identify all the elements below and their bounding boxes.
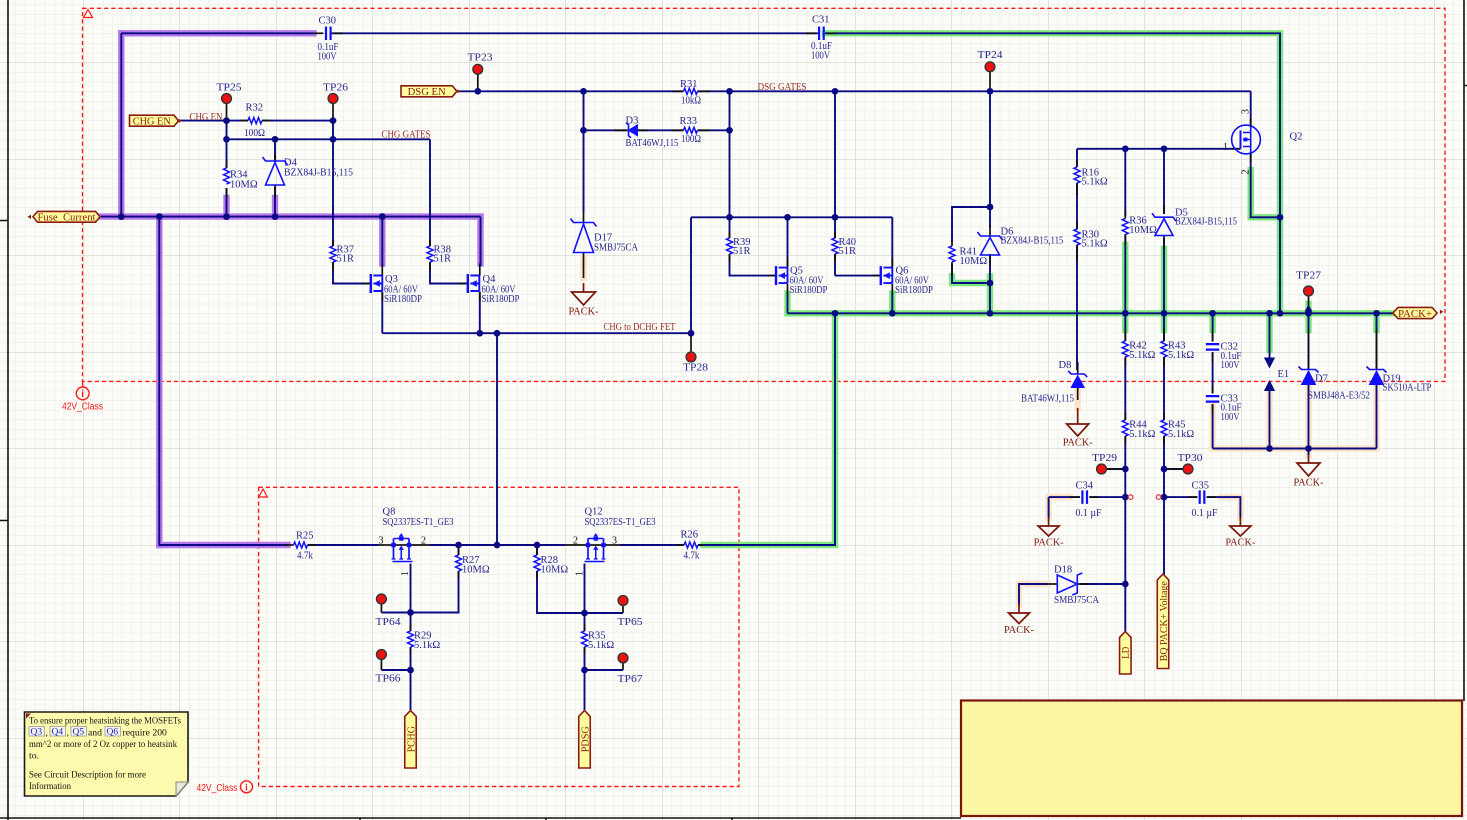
wire TP24 column x=990: [989, 91, 991, 207]
svg-text:CHG EN: CHG EN: [133, 117, 171, 128]
pin R39 bottom: [729, 254, 731, 262]
pin TP26 stub: [332, 104, 334, 121]
wire D5 bottom to bus: [1163, 238, 1165, 313]
wire C34 row: [1049, 496, 1080, 498]
junction CHG GATES D4: [272, 136, 279, 143]
pin R33 leads: [672, 129, 684, 131]
wire D18 right lead: [1080, 583, 1125, 585]
green highlight D7 top stub: [1305, 304, 1311, 330]
junction TP67: [581, 667, 588, 674]
test point TP23: [473, 64, 483, 74]
orange highlight E1 bottom drop: [1266, 391, 1272, 449]
pin D5 top: [1163, 205, 1165, 213]
junction CHG GATES x=226: [223, 136, 230, 143]
svg-text:To ensure proper heatsinking t: To ensure proper heatsinking the MOSFETs: [29, 716, 181, 727]
pin R43 top: [1163, 330, 1165, 341]
junction D18: [1122, 581, 1129, 588]
junction TP65: [581, 610, 588, 617]
test point TP66: [377, 650, 387, 660]
resistor R34: [224, 168, 230, 184]
wire C32 C33 column b: [1212, 352, 1214, 393]
wire C32 C33 column a: [1212, 313, 1214, 341]
svg-text:2: 2: [421, 536, 426, 547]
junction C34 right: [1122, 494, 1129, 501]
wire drain bus y=217 right side: [691, 216, 892, 218]
wire D4 column top: [274, 139, 276, 161]
pin Q2 pin2: [1250, 152, 1252, 162]
power PACK- (D8): [1067, 408, 1089, 436]
svg-text:Q6: Q6: [107, 728, 119, 738]
svg-text:SiR180DP: SiR180DP: [384, 294, 422, 305]
Q2 pin 3 number: [1240, 109, 1251, 114]
wire Fuse_Current bus y=216: [101, 216, 481, 218]
pin R28 bottom: [536, 571, 538, 578]
svg-text:CHG to DCHG FET: CHG to DCHG FET: [604, 322, 676, 333]
wire Q2 source elbow: [1251, 152, 1280, 217]
pin TP28 stub: [690, 333, 692, 352]
wire R28 elbow: [537, 571, 585, 613]
junction purple Q3: [379, 213, 386, 220]
svg-text:require 200: require 200: [123, 728, 168, 739]
svg-text:TP23: TP23: [468, 53, 493, 64]
green highlight Q2 source elbow: [1251, 170, 1280, 217]
pin D5 bottom: [1163, 236, 1165, 250]
svg-text:Q4: Q4: [52, 728, 64, 738]
port LD: [1120, 632, 1132, 675]
resistor R41: [949, 246, 955, 262]
sheet border left edge: [0, 0, 8, 820]
resistor R35: [582, 631, 588, 647]
junction purple D4: [272, 213, 279, 220]
svg-text:DSG EN: DSG EN: [408, 87, 446, 98]
wire TP64 row: [381, 612, 410, 614]
wire Q3 source drop: [381, 292, 383, 333]
resistor R28: [534, 555, 540, 571]
pin D8 bottom: [1077, 388, 1079, 401]
pin R38 leads: [429, 240, 431, 246]
pin R26 right: [698, 544, 703, 546]
pin Q2 pin3: [1250, 118, 1252, 127]
wire Q12 pin1 drop: [584, 564, 586, 614]
pin D17 bottom: [583, 253, 585, 278]
svg-text:5.1kΩ: 5.1kΩ: [1082, 177, 1108, 188]
pin Q3 drain: [381, 264, 383, 276]
svg-text:BQ PACK+ Voltage: BQ PACK+ Voltage: [1159, 581, 1170, 662]
wire R35 bottom: [584, 647, 586, 670]
svg-text:to.: to.: [29, 751, 39, 762]
svg-text:5.1kΩ: 5.1kΩ: [1168, 429, 1194, 440]
resistor R40: [832, 238, 838, 254]
wire PACK+ bus y=313: [788, 312, 1394, 314]
svg-text:mm^2 or more of 2 Oz copper to: mm^2 or more of 2 Oz copper to heatsink: [29, 739, 177, 750]
pin R35 bottom: [584, 647, 586, 654]
note text line 2 Q refs: [29, 727, 45, 737]
wire R34 column bottom: [226, 188, 228, 217]
junction green bus D7: [1305, 310, 1312, 317]
wire D7 column: [1308, 313, 1310, 369]
wire R41 bottom elbow: [952, 264, 990, 283]
pin R32 right: [262, 120, 270, 122]
pin R34 leads: [226, 160, 228, 168]
junction Q8 row R27: [455, 542, 462, 549]
pin D6 bottom: [989, 254, 991, 266]
junction green bus Q2: [1277, 310, 1284, 317]
junction purple x=159: [156, 213, 163, 220]
wire Fuse_Current top run y=33: [121, 32, 313, 34]
svg-text:Q2: Q2: [1290, 132, 1303, 143]
wire Q4 source drop: [479, 292, 481, 333]
Q12 pin 1 number: [575, 571, 586, 576]
transistor Q4: [467, 274, 469, 293]
wire R25 to Q8 gate: [315, 544, 379, 546]
svg-text:SiR180DP: SiR180DP: [482, 294, 520, 305]
title block box: [961, 701, 1462, 817]
test point TP65: [618, 596, 628, 606]
purple highlight Fuse_Current vertical x=121: [118, 33, 124, 216]
sheet border right edge: [1464, 0, 1467, 701]
svg-text:10kΩ: 10kΩ: [681, 95, 701, 106]
svg-text:42V_Class: 42V_Class: [62, 402, 103, 413]
svg-text:C35: C35: [1192, 480, 1210, 491]
port DSG EN: [401, 86, 457, 97]
junction green bus D6: [987, 310, 994, 317]
svg-text:TP65: TP65: [618, 617, 643, 628]
power PACK- (C34): [1038, 518, 1059, 537]
wire R36 column: [1124, 149, 1126, 216]
wire PCHG drop: [410, 670, 412, 711]
test point TP28: [686, 352, 696, 362]
pin R26 leads: [676, 544, 684, 546]
svg-text:4.7k: 4.7k: [684, 551, 701, 562]
pin R30 top: [1076, 222, 1078, 229]
svg-text:PCHG: PCHG: [406, 726, 417, 752]
svg-text:51R: 51R: [839, 246, 857, 257]
resistor R44: [1122, 420, 1128, 436]
wire R43 R45 column c: [1163, 436, 1165, 497]
pin Q5 source: [787, 284, 789, 294]
port PDSG: [579, 711, 591, 769]
svg-text:1: 1: [400, 571, 411, 576]
pin R42 bottom: [1124, 357, 1126, 366]
pin TP65 stub: [622, 606, 624, 614]
no-ERC marker C34: [1128, 495, 1133, 500]
test point TP30: [1183, 464, 1193, 474]
resistor R38: [427, 246, 433, 262]
wire C35 left lead: [1164, 496, 1197, 498]
wire TP29 row to C34: [1107, 468, 1126, 470]
svg-text:Q12: Q12: [585, 507, 603, 518]
svg-text:SiR180DP: SiR180DP: [895, 285, 933, 296]
junction drain bus Q5: [784, 214, 791, 221]
42V_Class blanket corner marker: [84, 10, 93, 18]
wire CHG GATES row y=139: [227, 138, 431, 140]
diode D8: [1071, 376, 1084, 388]
pin R16 bottom: [1076, 183, 1078, 195]
svg-text:PACK-: PACK-: [1225, 538, 1255, 549]
no-ERC marker C35: [1156, 495, 1161, 500]
resistor R29: [408, 631, 414, 647]
pin R29 leads: [410, 624, 412, 631]
pin R32 leads: [240, 120, 248, 122]
pin Q12 pin2: [565, 544, 587, 546]
orange highlight D17 bottom stub: [580, 258, 586, 278]
capacitor C32: [1206, 344, 1220, 350]
wire R40 column top: [834, 217, 836, 238]
resistor R39: [727, 238, 733, 254]
resistor R26: [684, 542, 698, 548]
42V_Class blanket (lower region) dashed boundary: [259, 487, 739, 786]
junction green bus Q6: [889, 310, 896, 317]
svg-text:D3: D3: [626, 116, 639, 127]
pin Q3 source: [381, 292, 383, 302]
junction y333 TP28: [688, 330, 695, 337]
wire DSG_EN row y=91 b: [698, 90, 1251, 92]
svg-text:i: i: [81, 389, 84, 400]
wire C32 C33 column c: [1212, 404, 1214, 448]
wire TP67 row: [585, 669, 624, 671]
orange highlight C35 PACK- elbow: [1222, 497, 1240, 517]
resistor R36: [1122, 219, 1128, 235]
zener diode D6: [978, 232, 1003, 240]
green highlight R42 top stub: [1122, 313, 1128, 330]
capacitor C31: [819, 27, 824, 41]
wire R31 R33 left column x=583: [583, 91, 585, 212]
wire R43 R45 column a: [1163, 313, 1165, 341]
zener diode D4: [263, 157, 288, 165]
port PACK+: [1393, 307, 1437, 318]
wire R25 to Q8 spacer: [308, 544, 316, 546]
wire TP26 jog down: [332, 121, 334, 140]
zener diode D17: [571, 219, 597, 227]
capacitor C33: [1206, 396, 1220, 402]
test point TP67: [618, 653, 628, 663]
pin R43 bottom: [1163, 357, 1165, 366]
wire vertical to R25 and row: [159, 217, 287, 545]
test point TP26: [328, 94, 338, 104]
pin R38 bottom: [429, 262, 431, 270]
TP27 entry arrow: [1305, 305, 1313, 312]
capacitor C34: [1082, 490, 1087, 504]
wire R27 elbow: [411, 571, 459, 613]
junction DSG row x=729: [726, 88, 733, 95]
purple highlight Fuse_Current net top run: [121, 30, 313, 36]
svg-text:51R: 51R: [337, 254, 355, 265]
wire D19 to PACK- bus: [1376, 384, 1378, 449]
green highlight D5 bottom stub: [1161, 249, 1167, 313]
svg-text:and: and: [88, 728, 102, 739]
junction TP30: [1161, 466, 1168, 473]
pin C33 bottom: [1212, 404, 1214, 414]
pin R40 bottom: [834, 254, 836, 262]
orange highlight PACK- bus y=448: [1213, 445, 1377, 451]
resistor R45: [1161, 420, 1167, 436]
green highlight PACK+ top run C31 to corner: [825, 33, 1280, 313]
resistor R32: [248, 118, 262, 124]
junction purple R34: [223, 213, 230, 220]
svg-text:3: 3: [379, 536, 384, 547]
pin D6 top: [989, 225, 991, 236]
wire R16 R30 D8 column c: [1076, 245, 1078, 370]
transistor Q8: [394, 539, 410, 560]
pin TP66 stub: [380, 660, 382, 671]
pin C30 right: [333, 32, 343, 34]
test point TP64: [377, 594, 387, 604]
test point TP27: [1304, 286, 1314, 296]
pin R34 bottom: [226, 188, 228, 198]
pin R29 bottom: [410, 647, 412, 654]
Q8 pin 1 number: [400, 571, 411, 576]
wire R16 R30 D8 column b: [1076, 183, 1078, 229]
svg-text:C30: C30: [319, 15, 337, 26]
wire R39 elbow to Q5 gate: [730, 254, 777, 276]
resistor R33: [684, 127, 698, 133]
wire D5 column: [1163, 149, 1165, 214]
junction y333 Q4: [476, 330, 483, 337]
resistor R37: [330, 246, 336, 262]
junction Q2 source corner: [1277, 214, 1284, 221]
pin C30 left: [314, 32, 324, 34]
wire R37 elbow to Q3 gate: [333, 262, 371, 284]
wire R27 column top: [458, 545, 460, 555]
pin Q12 pin3: [605, 544, 620, 546]
svg-text:Q5: Q5: [73, 728, 85, 738]
pin TP29 stub: [1107, 468, 1125, 470]
svg-text:100V: 100V: [1221, 360, 1240, 371]
pin Q8 gate: [379, 544, 393, 546]
svg-text:BAT46WJ,115: BAT46WJ,115: [1021, 394, 1074, 405]
svg-text:Information: Information: [29, 781, 71, 792]
transistor Q2: [1232, 125, 1261, 154]
pin R41 top: [951, 240, 953, 246]
pin R37 bottom: [332, 262, 334, 270]
wire TP28 column x=691: [690, 217, 692, 333]
note box: [25, 712, 189, 796]
pin D3 anode: [637, 129, 648, 131]
pin C32 bottom: [1212, 352, 1214, 362]
wire D6 column: [989, 207, 991, 228]
svg-text:Q3: Q3: [31, 728, 43, 738]
wire R42 R44 column a: [1124, 313, 1126, 341]
pin D17 top: [583, 212, 585, 222]
wire R35 column: [584, 613, 586, 631]
pin D4 bottom: [274, 185, 276, 198]
wire C34 right lead: [1090, 496, 1126, 498]
pin D7 top: [1308, 330, 1310, 369]
svg-text:SMBJ75CA: SMBJ75CA: [1054, 595, 1099, 606]
pin D3 cathode: [614, 129, 628, 131]
pin Q2 gate lead: [1232, 148, 1241, 150]
wire R43 R45 column b: [1163, 357, 1165, 420]
pin Q3 gate lead: [362, 283, 371, 285]
green highlight D6 bottom stub: [987, 277, 993, 314]
transistor Q12: [588, 539, 604, 560]
svg-text:100V: 100V: [811, 51, 830, 62]
wire Q12 pin3 to R26: [620, 544, 684, 546]
svg-text:1: 1: [575, 571, 586, 576]
port BQ PACK+ Voltage: [1157, 574, 1169, 669]
svg-text:PACK-: PACK-: [569, 307, 599, 318]
green highlight E1 top stub: [1266, 313, 1272, 350]
svg-text:TP24: TP24: [978, 50, 1004, 61]
junction DSG_EN TP23: [474, 88, 481, 95]
green highlight Q6 source stub: [889, 294, 895, 314]
svg-text:TP67: TP67: [618, 674, 643, 685]
svg-text:1: 1: [1223, 142, 1228, 153]
wire R26 lead: [698, 544, 702, 546]
pin Q5 gate lead: [767, 275, 776, 277]
svg-text:100V: 100V: [1221, 412, 1240, 423]
pin TP30 stub: [1164, 468, 1182, 470]
junction DSG row x=583: [580, 88, 587, 95]
wire CHG_EN row y=120 b: [262, 120, 333, 122]
pin TP67 stub: [622, 664, 624, 671]
capacitor C35: [1200, 490, 1205, 504]
svg-text:BZX84J-B15,115: BZX84J-B15,115: [1175, 217, 1237, 228]
test point TP24: [985, 62, 995, 72]
diode D3: [629, 125, 638, 136]
junction green bus x=835: [832, 310, 839, 317]
wire E1 column top: [1269, 313, 1271, 359]
pin R39 leads: [729, 232, 731, 238]
pin C31 right: [827, 32, 836, 34]
transistor Q5: [775, 266, 777, 285]
svg-text:D7: D7: [1315, 374, 1328, 385]
svg-text:LD: LD: [1121, 647, 1132, 659]
svg-text:10MΩ: 10MΩ: [1129, 225, 1157, 236]
pin C32 top: [1212, 330, 1214, 342]
svg-text:TP26: TP26: [323, 83, 348, 94]
resistor R31: [684, 88, 698, 94]
wire R29 column: [410, 613, 412, 632]
junction TP29: [1122, 466, 1129, 473]
spark gap E1: [1264, 358, 1275, 369]
svg-text:SQ2337ES-T1_GE3: SQ2337ES-T1_GE3: [585, 517, 656, 528]
svg-text:SQ2337ES-T1_GE3: SQ2337ES-T1_GE3: [383, 517, 454, 528]
Q2 pin 2 number: [1240, 170, 1251, 175]
svg-text:TP30: TP30: [1178, 453, 1203, 464]
svg-text:42V_Class: 42V_Class: [197, 783, 238, 794]
wire R38 elbow to Q4 gate: [430, 262, 468, 284]
pin TP23 stub: [477, 75, 479, 92]
junction DSG row x=835: [832, 88, 839, 95]
pin R41 bottom: [951, 262, 953, 277]
svg-text:10MΩ: 10MΩ: [462, 564, 490, 575]
svg-text:TP27: TP27: [1296, 271, 1321, 282]
svg-text:SiR180DP: SiR180DP: [790, 285, 828, 296]
wire D4 column bottom: [274, 187, 276, 217]
green highlight D19 top stub: [1373, 313, 1379, 330]
svg-text:SMBJ48A-E3/52: SMBJ48A-E3/52: [1308, 390, 1370, 401]
junction purple corner: [118, 213, 125, 220]
pin R40 leads: [834, 232, 836, 238]
wire D3 R33 row y=130 b: [637, 129, 684, 131]
junction CHG GATES R37: [330, 136, 337, 143]
svg-text:TP29: TP29: [1092, 453, 1117, 464]
pin R33 right: [698, 129, 711, 131]
junction PACK- bus E1: [1266, 445, 1273, 452]
resistor R30: [1074, 229, 1080, 245]
svg-text:Fuse_Current: Fuse_Current: [38, 213, 96, 224]
pin R31 leads: [672, 90, 684, 92]
svg-text:51R: 51R: [733, 246, 751, 257]
pin Q4 gate lead: [459, 283, 468, 285]
power PACK- (D7): [1297, 455, 1320, 476]
svg-text:0.1 µF: 0.1 µF: [1192, 508, 1218, 519]
pin R44 top: [1124, 413, 1126, 420]
svg-text:C31: C31: [812, 14, 830, 25]
svg-text:BAT46WJ,115: BAT46WJ,115: [626, 138, 679, 149]
power PACK- (D18): [1009, 605, 1030, 624]
